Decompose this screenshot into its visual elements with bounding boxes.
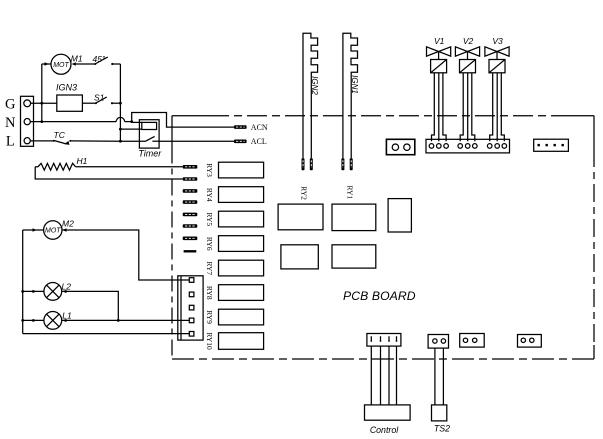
- svg-text:Timer: Timer: [138, 149, 162, 159]
- svg-text:RY5: RY5: [205, 212, 214, 226]
- connector J6 TS2 header: [428, 335, 448, 349]
- relay RY9: [219, 309, 264, 325]
- pin bar 6: [183, 224, 198, 228]
- igniter IGN1: [343, 33, 358, 158]
- relay RY5: [219, 211, 264, 227]
- wire rail C to M2: [23, 229, 44, 231]
- ignition box IGN3: [57, 95, 83, 111]
- arrow into M1 left: [45, 62, 49, 65]
- pin J2-6: [473, 144, 478, 149]
- wire timer feed from rail B: [120, 128, 141, 130]
- svg-text:V1: V1: [434, 36, 445, 46]
- svg-text:RY2: RY2: [300, 186, 309, 200]
- svg-text:RY4: RY4: [205, 188, 214, 202]
- pin bar 7: [183, 237, 198, 241]
- component box U3: [281, 245, 318, 269]
- node N / ACN branch: [130, 120, 133, 123]
- svg-text:MOT: MOT: [53, 62, 69, 69]
- pin J2-9: [502, 144, 507, 149]
- pin J1-3: [189, 305, 194, 310]
- pin J1-2: [189, 292, 194, 297]
- svg-text:RY3: RY3: [205, 163, 214, 177]
- arrow into M1 right: [72, 62, 76, 65]
- wire M2 to connector pin1: [62, 230, 189, 280]
- pin J1-1: [189, 278, 194, 283]
- pin bar 8: [184, 250, 197, 252]
- wire rail C to L1: [23, 319, 44, 321]
- svg-text:PCB BOARD: PCB BOARD: [343, 289, 416, 303]
- wires Control cable: [371, 346, 396, 405]
- relay RY2 box: [278, 204, 323, 230]
- pin bar 5: [183, 213, 198, 217]
- relay RY6: [219, 236, 264, 252]
- pin J1-5: [189, 332, 194, 337]
- svg-text:ACN: ACN: [251, 123, 268, 132]
- wires V1 to pins: [432, 73, 435, 142]
- svg-text:RY10: RY10: [205, 332, 214, 350]
- pin J2-4: [458, 144, 463, 149]
- switch 45deg: [95, 57, 108, 64]
- svg-text:RY7: RY7: [205, 261, 214, 275]
- pin lug IGN2-a: [302, 158, 305, 170]
- wire L1 to connector pin4: [62, 319, 190, 321]
- wire N detour to ACN pin: [132, 113, 234, 128]
- wire left rail C: [22, 230, 24, 334]
- lamp L2: [44, 283, 62, 301]
- svg-text:IGN3: IGN3: [56, 83, 77, 93]
- relay RY8: [219, 285, 264, 301]
- svg-text:M1: M1: [71, 54, 83, 64]
- svg-text:L: L: [6, 134, 15, 150]
- relay RY7: [219, 260, 264, 276]
- coil V1: [431, 60, 447, 73]
- svg-text:ACL: ACL: [251, 137, 267, 146]
- wires V2 to pins: [460, 73, 463, 142]
- relay RY4: [219, 187, 264, 203]
- connector J8 (2 pin): [518, 335, 542, 348]
- wire IGN3 to S1: [82, 102, 95, 104]
- wire timer switch to ACL pin: [159, 140, 234, 142]
- pin ACN: [234, 125, 247, 129]
- igniter IGN2: [303, 33, 318, 158]
- wire N row with hop over rail B: [30, 121, 116, 123]
- thermal cutoff TC: [54, 140, 67, 144]
- wire L2 to L1 junction: [62, 291, 119, 320]
- heater H1 zigzag: [35, 163, 75, 170]
- valve V1: [427, 47, 451, 60]
- terminal block G N L: [21, 96, 34, 146]
- motor M2: [44, 221, 62, 239]
- component box U4: [332, 245, 376, 268]
- wire G row to IGN3: [31, 102, 57, 104]
- pin J2-7: [487, 144, 492, 149]
- svg-text:N: N: [5, 115, 16, 131]
- svg-text:TS2: TS2: [434, 423, 450, 433]
- switch S1: [96, 97, 107, 103]
- svg-text:RY8: RY8: [205, 286, 214, 300]
- pin J2-3: [444, 144, 449, 149]
- svg-text:45°: 45°: [93, 54, 106, 64]
- node rail A / N junction: [40, 120, 43, 123]
- node rail B / L line: [119, 140, 122, 143]
- node rail B / timer feed: [119, 128, 122, 131]
- svg-text:V3: V3: [492, 36, 503, 46]
- connector J1 block: [178, 276, 203, 340]
- svg-text:L1: L1: [62, 310, 72, 320]
- arrow into M2 right: [62, 228, 66, 231]
- component box U2: [388, 199, 411, 232]
- relay RY1 box: [332, 204, 376, 231]
- pin bar 3: [183, 189, 198, 193]
- connector J5 Control header: [367, 334, 401, 347]
- pin lug IGN1-b: [350, 158, 353, 170]
- node L2/L1 join: [117, 319, 120, 322]
- timer switch: [145, 136, 155, 141]
- svg-text:M2: M2: [62, 219, 74, 229]
- node rail B / S1: [119, 102, 122, 105]
- pin lug IGN1-a: [341, 158, 344, 170]
- wire L row: [30, 140, 53, 142]
- wire rail C to L2: [23, 290, 44, 292]
- svg-text:RY9: RY9: [205, 310, 214, 324]
- svg-text:IGN1: IGN1: [350, 75, 359, 94]
- wire L to timer switch: [70, 140, 145, 142]
- svg-text:TC: TC: [54, 130, 66, 140]
- svg-text:G: G: [5, 96, 16, 112]
- svg-text:RY6: RY6: [205, 237, 214, 251]
- svg-text:RY1: RY1: [346, 185, 355, 199]
- svg-text:S1: S1: [94, 93, 105, 103]
- connector J7 (2 pin): [460, 334, 485, 348]
- wire rail C bottom to connector pin5: [23, 333, 190, 335]
- node rail C / L1: [21, 319, 24, 322]
- coil V3: [489, 60, 505, 73]
- wire N to timer motor: [132, 121, 142, 123]
- svg-text:H1: H1: [77, 156, 88, 166]
- timer U1: [139, 120, 159, 148]
- svg-text:MOT: MOT: [45, 227, 61, 234]
- pin ACL: [234, 140, 247, 144]
- wire H1 return to pin2: [35, 167, 183, 179]
- motor M1: [51, 54, 71, 74]
- PCB BOARD dashed border: [172, 116, 594, 359]
- wire H1 to pin1: [76, 166, 183, 168]
- valve V2: [455, 47, 479, 60]
- lamp L1: [44, 312, 62, 330]
- pin bar 2: [183, 177, 198, 181]
- relay RY3: [219, 162, 264, 178]
- pin J2-2: [437, 144, 442, 149]
- Control plug box: [365, 405, 411, 420]
- valve V3: [485, 47, 509, 60]
- pin J2-8: [495, 144, 500, 149]
- pin J1-4: [189, 318, 194, 323]
- pin bar 1: [183, 165, 198, 169]
- TS2 plug box: [432, 405, 447, 421]
- connector J4 (4 dot): [534, 139, 569, 151]
- svg-text:Control: Control: [370, 425, 399, 435]
- wire left rail A: [41, 64, 43, 122]
- svg-text:IGN2: IGN2: [310, 76, 319, 95]
- pin J2-1: [429, 144, 434, 149]
- node rail C / L2: [21, 290, 24, 293]
- relay RY10: [219, 333, 264, 350]
- wire M1 top branch: [42, 63, 51, 65]
- coil V2: [460, 60, 476, 73]
- pin lug IGN2-b: [310, 158, 313, 170]
- pin bar 4: [183, 200, 198, 204]
- connector J3 (2 pin): [386, 139, 414, 154]
- wire right rail B: [119, 64, 121, 141]
- wires TS2: [435, 348, 444, 405]
- wires V3 to pins: [490, 73, 493, 142]
- connector strip J2 (valves): [426, 139, 510, 153]
- svg-text:V2: V2: [463, 36, 474, 46]
- node G-rail junction: [40, 102, 43, 105]
- pin J2-5: [465, 144, 470, 149]
